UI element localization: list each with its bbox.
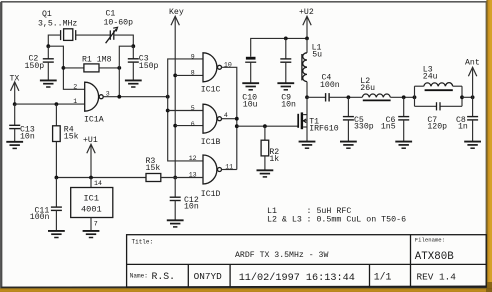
svg-text:ATX80B: ATX80B [415,251,454,263]
svg-text:120p: 120p [427,123,447,132]
svg-text:10n: 10n [20,133,35,142]
photo gold border bottom [0,288,492,292]
svg-text:Filename:: Filename: [415,237,445,244]
svg-text:15k: 15k [146,163,161,173]
junction bus2 pin8 tap [173,74,177,78]
ground under C6 [395,142,412,149]
ground under C5 [340,142,357,149]
TX input arrow [10,75,20,105]
resistor R3 15k [146,157,204,182]
svg-text:100n: 100n [320,81,340,90]
junction C6 tap [402,95,406,99]
svg-text:Title:: Title: [132,239,154,246]
svg-text:ON7YD: ON7YD [194,271,223,282]
svg-text:4: 4 [224,112,228,119]
node B junction [131,44,135,48]
junction feedback column on output [117,95,121,99]
svg-text:L2 & L3: 0.5mm CuL on T50-6: L2 & L3: 0.5mm CuL on T50-6 [267,215,406,224]
ground under C2 [40,80,57,87]
op-amp gate IC1A (4001 NOR) [73,82,110,124]
transistor T1 IRF610 MOSFET [298,97,339,141]
svg-text:330p: 330p [354,123,374,132]
wire node A to crystal Q1 left [48,35,60,46]
svg-text:10n: 10n [281,101,296,110]
capacitor C2 150p [25,46,54,80]
wire drain node to C4 [307,96,326,98]
junction bus2 keying node [173,176,177,180]
ground under C13 [6,142,23,149]
svg-text:100n: 100n [30,213,50,222]
svg-text:1k: 1k [269,154,279,164]
junction bus1 pin5 tap [166,109,170,113]
photo gold border right [487,0,492,292]
svg-text:1n5: 1n5 [381,123,396,132]
svg-text:1n: 1n [458,123,468,132]
wire gate drive to T1 [237,125,298,127]
wire +U1 rail [56,177,146,179]
svg-text:5u: 5u [312,51,322,60]
svg-text:26u: 26u [360,84,375,93]
junction IC1A output on bus1 [166,95,170,99]
ground under R2 [257,170,274,177]
ground under C9 [277,83,294,90]
svg-text:IC1A: IC1A [84,116,104,125]
junction tank left node [413,95,417,99]
capacitor C13 10n [9,104,35,142]
svg-text:14: 14 [94,180,102,187]
capacitor C3 150p [128,46,159,80]
svg-text:10u: 10u [243,101,258,110]
junction TX node [13,102,17,106]
wire bus1 to IC1B pin 5 [168,110,203,112]
IC1 4001 package box [71,178,113,231]
svg-text:5: 5 [191,105,195,112]
svg-text:+U2: +U2 [299,8,314,17]
svg-text:10-60p: 10-60p [104,19,134,28]
wire IC1A output to bus1 [103,96,168,98]
wire bus1 vertical [168,59,203,161]
svg-text:REV 1.4: REV 1.4 [417,272,457,283]
svg-text:3,5..MHz: 3,5..MHz [38,20,77,29]
junction R1 left [62,66,66,70]
svg-text:IC1: IC1 [84,193,99,203]
junction IC1 pin14 tap [89,176,93,180]
ground under C10 [242,83,259,90]
capacitor C11 100n [30,178,62,231]
svg-text:R.S.: R.S. [152,271,176,282]
junction tank right node [460,95,464,99]
crystal Q1 3,5..MHz [38,10,77,40]
svg-text:150p: 150p [139,62,159,71]
inductor L1 5u RFC [302,38,322,97]
svg-text:9: 9 [191,53,195,60]
svg-text:6: 6 [191,121,195,128]
svg-text:Name:: Name: [130,273,148,280]
svg-text:Q1: Q1 [42,10,52,19]
junction C9 on U2 rail [284,37,288,41]
wire crystal Q1 to trimmer C1 [76,34,111,36]
wire TX node to IC1A pin 1 [15,103,85,105]
title block frame [127,235,487,287]
junction C11 tap [55,176,59,180]
trimmer capacitor C1 10-60p [104,10,134,44]
svg-text:IC1C: IC1C [201,86,221,95]
junction R2 tap [263,124,267,128]
wire L2 to tank [390,96,414,98]
wire C1 to node B [114,35,134,46]
+U2 supply arrow [299,8,314,38]
wire tank to antenna node [462,96,473,98]
junction L1 top on U2 rail [305,37,309,41]
inductor L3 24u [423,66,453,91]
svg-text:+U1: +U1 [83,136,98,145]
wire +U2 rail [251,38,307,56]
Ant antenna arrow [465,59,480,117]
svg-text:Key: Key [169,8,184,17]
svg-text:24u: 24u [423,73,438,82]
svg-text:4001: 4001 [81,204,102,214]
ground under C12 [167,220,184,227]
svg-text:IRF610: IRF610 [309,124,339,133]
wire IC1C output to bus3 [222,67,237,169]
tank circuit frame wires [415,86,463,106]
svg-text:7: 7 [94,220,98,227]
capacitor C4 100n [320,74,340,102]
capacitor C7 120p [427,102,447,132]
junction drain node [305,95,309,99]
capacitor C6 1n5 [381,97,409,141]
svg-text:2: 2 [73,83,77,90]
notes text L1 L2 L3 [267,207,406,225]
resistor R1 1M8 [63,56,119,72]
ground under IC1 pin 7 [83,231,100,238]
junction C5 tap [347,95,351,99]
svg-text:IC1D: IC1D [201,190,221,199]
junction bus2 pin6 tap [173,124,177,128]
wire node B to feedback column [119,46,133,96]
ground under C8 [464,142,481,149]
svg-text:ARDF TX 3.5MHz - 3W: ARDF TX 3.5MHz - 3W [235,251,328,260]
wire IC1B output to bus3 [222,118,237,120]
svg-text:8: 8 [191,70,195,77]
svg-text:15k: 15k [64,132,79,142]
wire C4 to L2 [329,96,362,98]
gate IC1C (4001 NOR) [191,53,232,95]
svg-text:IC1B: IC1B [201,138,221,147]
capacitor C8 1n [456,116,478,142]
ground under T1 source [299,142,316,149]
junction gate drive tap on bus3 [235,124,239,128]
inductor L2 26u [360,77,390,101]
junction R1 right [117,66,121,70]
capacitor C5 330p [343,97,374,141]
svg-text:11/02/1997 16:13:44: 11/02/1997 16:13:44 [239,272,355,284]
svg-text:1: 1 [73,98,77,105]
title block texts [130,237,456,285]
node A junction [46,44,50,48]
wire IC1D output to bus3 [222,169,237,171]
wire node A to gate input branch [48,46,84,89]
svg-text:R1 1M8: R1 1M8 [82,56,112,65]
resistor R4 15k [53,104,79,177]
svg-text:150p: 150p [25,62,45,71]
svg-text:1/1: 1/1 [374,272,392,283]
svg-text:10n: 10n [184,203,199,212]
ground under C11 [48,231,65,238]
wire bus2 to IC1B pin 6 [175,125,203,127]
svg-text:Ant: Ant [465,59,480,68]
resistor R2 1k [261,126,279,170]
Key input arrow [169,8,184,25]
capacitor C12 10n [170,178,199,221]
capacitor C9 10n [280,38,296,109]
junction IC1B output on bus3 [235,117,239,121]
junction R4 top [55,102,59,106]
wire bus2 to IC1C pin 8 [175,74,203,76]
+U1 supply arrow [83,136,98,178]
svg-text:12: 12 [189,155,197,162]
gate IC1B (4001 NOR) [191,104,228,147]
capacitor C10 10u electrolytic [242,57,257,110]
ground under C3 [125,80,142,87]
junction antenna node [471,95,475,99]
wire bus2 Key vertical [174,16,176,177]
gate IC1D (4001 NOR) [189,155,233,199]
svg-text:C1: C1 [106,10,116,19]
